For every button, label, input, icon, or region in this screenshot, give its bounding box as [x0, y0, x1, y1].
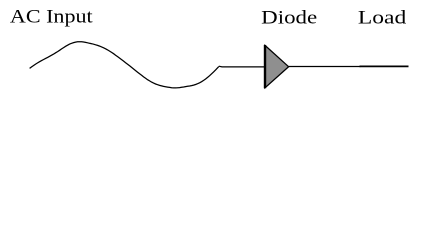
- wire from diode to load (segment 1): [289, 66, 361, 68]
- diode D1 (triangle): [265, 45, 289, 87]
- svg-text:AC Input: AC Input: [10, 7, 94, 28]
- wire from sine to diode anode: [219, 65, 265, 68]
- diode D1 base bar (thick left edge): [264, 45, 266, 88]
- svg-text:Diode: Diode: [261, 8, 317, 29]
- svg-text:Load: Load: [358, 8, 407, 29]
- AC input sine wave: [30, 42, 219, 88]
- wire from diode to load (segment 2): [360, 65, 409, 67]
